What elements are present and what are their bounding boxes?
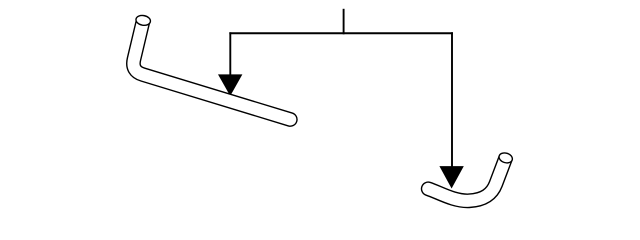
right leader vertical line: [451, 32, 453, 167]
left leader vertical line: [229, 32, 231, 76]
bracket stub (top center vertical tick): [343, 9, 345, 35]
hose 1 (left, long bent hose) tube body: [133, 20, 290, 119]
hose 2 open-end ellipse: [498, 151, 514, 164]
left arrowhead: [218, 74, 242, 96]
hose 2 (right, short curved hose) tube body: [428, 158, 506, 201]
hose 1 open-end ellipse: [135, 14, 151, 26]
right arrowhead: [439, 166, 463, 188]
bracket horizontal line: [229, 32, 453, 34]
